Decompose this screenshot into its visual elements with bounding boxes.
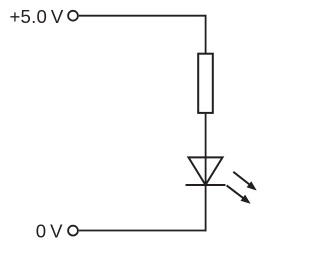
LED: [186, 157, 257, 203]
resistor: [198, 54, 213, 113]
terminal +5.0 V: [68, 11, 78, 21]
svg-text:0 V: 0 V: [36, 221, 63, 242]
svg-text:+5.0 V: +5.0 V: [10, 6, 64, 27]
wire top vertical: [205, 15, 207, 53]
terminal 0 V: [68, 226, 78, 236]
wire bottom horizontal: [79, 230, 207, 232]
wire top horizontal: [79, 15, 206, 17]
wire resistor to LED: [205, 114, 207, 157]
wire LED to bottom corner: [205, 185, 207, 231]
